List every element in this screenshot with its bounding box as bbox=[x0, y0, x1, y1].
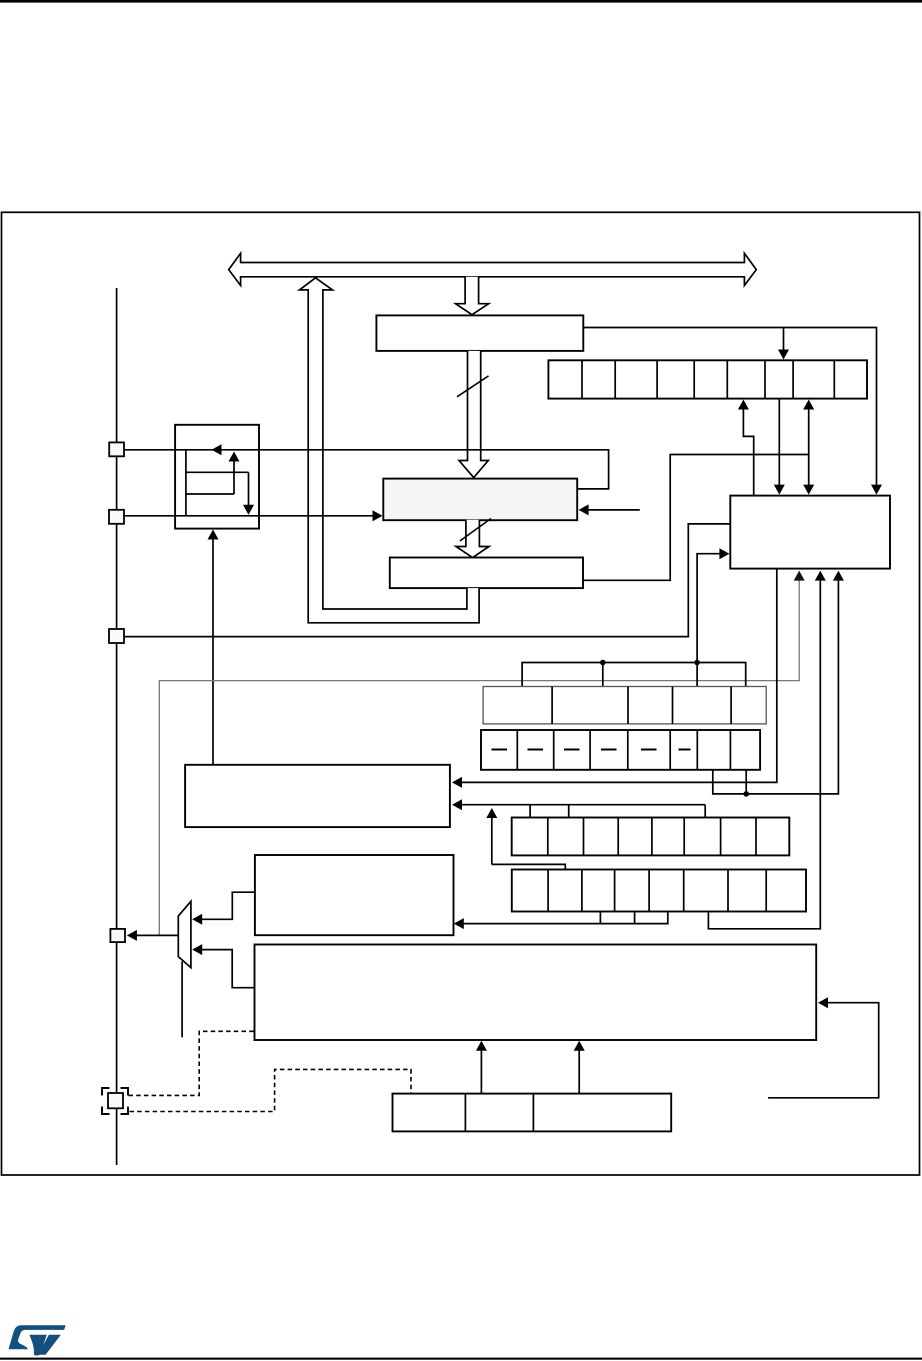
bracket over rowA bbox=[522, 663, 746, 687]
register-blockR double arrow bbox=[808, 409, 810, 486]
latch internal down arrowhead bbox=[243, 505, 254, 515]
bottom rule bbox=[0, 1358, 922, 1360]
wire2 to leftbox with rowC taps bbox=[462, 804, 705, 806]
wire into bigbox right bbox=[768, 1003, 879, 1098]
dashed wire pin5 to bottom register bbox=[130, 1069, 412, 1111]
top-right register (control register cells) bbox=[548, 360, 867, 398]
pin5 square bbox=[108, 1093, 123, 1108]
hollow arrow box1 to box2 bbox=[459, 351, 488, 478]
mux select stub bbox=[181, 962, 183, 1038]
pin1 square bbox=[109, 442, 124, 456]
wire latch bottom from leftbox bbox=[212, 538, 214, 765]
hollow up arrow write-back path bbox=[300, 278, 480, 623]
up arrow into wire2 bbox=[491, 818, 493, 865]
arrowhead into latch bottom bbox=[208, 530, 219, 540]
hollow arrow box2 to box3 bbox=[456, 520, 489, 558]
pin2 square bbox=[109, 510, 124, 524]
top rule bbox=[0, 0, 922, 3]
mux trapezoid bbox=[178, 901, 191, 967]
arrowhead into box2 left bbox=[373, 510, 383, 521]
rowD bottom taps to leftbox2 bbox=[462, 912, 668, 924]
bottom register to bigbox arrows bbox=[480, 1050, 482, 1094]
register-blockR jogged up arrow bbox=[743, 409, 753, 496]
pin3 square bbox=[109, 629, 124, 643]
box2 counter register bbox=[383, 479, 577, 521]
latch block bbox=[175, 425, 259, 529]
internal data bus (double arrow) bbox=[229, 253, 757, 285]
arrowhead on pin1 wire bbox=[212, 444, 222, 455]
junction dots bbox=[600, 660, 606, 666]
box3 alternate counter register bbox=[390, 558, 583, 589]
box1 MCU interface bbox=[376, 315, 583, 351]
latch internal staircase bbox=[186, 450, 249, 516]
blockR bottom vertical to rowB loop bbox=[713, 579, 839, 794]
rowB bit dashes bbox=[492, 749, 691, 751]
rowB register bbox=[481, 730, 760, 770]
wire box1 right to blockR top bbox=[583, 328, 876, 486]
figure frame bbox=[2, 212, 920, 1175]
leftbox2 edge detect bbox=[255, 855, 454, 935]
rowC register bbox=[512, 818, 790, 856]
bus slash 2 bbox=[460, 519, 491, 542]
ST logo bbox=[9, 1325, 66, 1355]
hollow arrow bus to box1 bbox=[456, 277, 489, 315]
pin5 dashed corner brackets bbox=[102, 1088, 128, 1114]
wire pin2 to box2 left bbox=[124, 515, 374, 517]
wire blockR bottom to leftbox (wire1) bbox=[462, 569, 777, 783]
bigbox control logic bbox=[255, 945, 817, 1041]
wire pin1 to box2 right bbox=[124, 450, 609, 489]
left pin rail wire bbox=[116, 288, 118, 1165]
mux output to pin4 bbox=[136, 934, 178, 936]
blockR bottom vertical to rowD loop bbox=[708, 579, 820, 929]
mux input2 from bigbox bbox=[202, 950, 255, 988]
mux input1 from leftbox2 bbox=[202, 892, 255, 919]
register down into blockR bbox=[778, 399, 780, 485]
wire box3 right loop to register nets bbox=[583, 455, 809, 581]
wire pin3 to blockR left bbox=[124, 524, 730, 637]
rowA register bbox=[483, 687, 766, 724]
bottom register bbox=[393, 1094, 672, 1132]
rowD register bbox=[512, 870, 806, 912]
wire into blockR left with arrow from bracket bbox=[697, 554, 720, 663]
blockR counter control logic bbox=[730, 496, 890, 569]
latch internal up arrowhead bbox=[229, 452, 240, 462]
dashed wire pin5 to bigbox bbox=[129, 1031, 255, 1095]
gray status wire bbox=[159, 576, 799, 936]
stub arrow into box2 right bbox=[588, 509, 640, 511]
leftbox output compare circuit bbox=[185, 765, 450, 827]
branch down into register top bbox=[783, 328, 785, 352]
pin4 square bbox=[110, 929, 125, 942]
bus slash 1 bbox=[457, 376, 489, 397]
rowB drop to dot bbox=[745, 770, 747, 794]
